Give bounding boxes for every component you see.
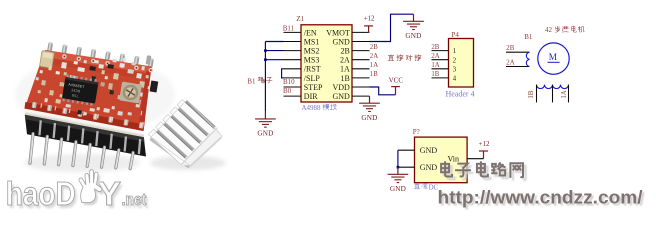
svg-text:1: 1 (453, 47, 457, 55)
svg-text:1A: 1A (431, 62, 439, 69)
svg-text:DIR: DIR (304, 92, 318, 101)
svg-text:B1: B1 (524, 33, 533, 41)
svg-text:STEP: STEP (304, 83, 323, 92)
svg-text:http://www.cndzz.com/: http://www.cndzz.com/ (438, 186, 644, 207)
svg-text:1B: 1B (528, 90, 535, 98)
svg-text:MS1: MS1 (304, 37, 320, 46)
svg-text:2B: 2B (506, 45, 514, 52)
svg-text:GND: GND (420, 163, 438, 172)
svg-text:B1: B1 (247, 77, 256, 85)
svg-text:/SLP: /SLP (304, 74, 321, 83)
svg-text:Header 4: Header 4 (446, 89, 475, 98)
svg-text:4: 4 (453, 75, 457, 83)
svg-text:/RST: /RST (304, 65, 321, 74)
svg-text:P4: P4 (452, 31, 460, 39)
svg-text:GND: GND (332, 92, 350, 101)
svg-text:1B: 1B (370, 71, 378, 78)
svg-text:1B: 1B (431, 71, 439, 78)
svg-text:2B: 2B (340, 47, 349, 56)
svg-text:2A: 2A (340, 56, 350, 65)
svg-text:B0: B0 (283, 87, 292, 95)
svg-text:B11: B11 (283, 25, 295, 33)
svg-text:A4988: A4988 (302, 104, 322, 112)
svg-text:2A: 2A (370, 53, 378, 60)
svg-text:1B: 1B (340, 74, 349, 83)
svg-text:GND: GND (405, 32, 421, 40)
svg-text:GND: GND (332, 37, 350, 46)
svg-text:MS2: MS2 (304, 47, 320, 56)
svg-text:VDD: VDD (332, 83, 350, 92)
svg-text:42: 42 (545, 26, 553, 34)
svg-text:MS3: MS3 (304, 56, 320, 65)
svg-text:Vin: Vin (447, 155, 459, 164)
svg-text:2B: 2B (431, 44, 439, 51)
svg-text:GND: GND (257, 130, 273, 138)
svg-text:1A: 1A (370, 62, 378, 69)
svg-text:GND: GND (420, 146, 438, 155)
svg-text:/EN: /EN (304, 28, 317, 37)
svg-text:1A: 1A (561, 90, 568, 98)
svg-text:2A: 2A (506, 59, 514, 66)
svg-text:GND: GND (361, 114, 377, 122)
svg-text:GND: GND (390, 185, 406, 193)
svg-text:+12: +12 (479, 140, 490, 148)
svg-text:2B: 2B (370, 44, 378, 51)
svg-text:+12: +12 (364, 15, 375, 23)
svg-text:.net: .net (122, 190, 147, 209)
svg-text:P?: P? (413, 128, 420, 136)
svg-text:VCC: VCC (389, 76, 404, 84)
svg-text:VMOT: VMOT (326, 28, 350, 37)
svg-text:1A: 1A (340, 65, 350, 74)
svg-text:3: 3 (453, 65, 457, 73)
svg-text:2A: 2A (431, 53, 439, 60)
svg-text:M: M (549, 52, 557, 62)
svg-text:haoD: haoD (6, 175, 76, 212)
svg-text:B10: B10 (283, 78, 295, 86)
svg-text:Z1: Z1 (296, 15, 304, 23)
svg-text:2: 2 (453, 56, 457, 64)
